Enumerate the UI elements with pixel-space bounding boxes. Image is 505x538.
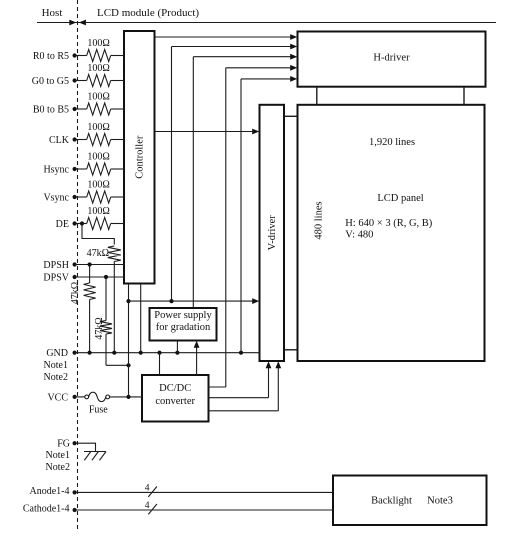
svg-text:Controller: Controller <box>135 135 146 179</box>
resistor R9 47k&#937; (DPSH to GND) <box>84 265 96 353</box>
wire R10 bottom to VCC vertical <box>106 364 129 366</box>
svg-text:Cathode1-4: Cathode1-4 <box>23 504 70 515</box>
svg-text:B0 to B5: B0 to B5 <box>33 105 69 116</box>
wire DC/DC output 2 to V-driver (arrow up) <box>209 361 272 397</box>
svg-text:Hsync: Hsync <box>43 165 69 176</box>
wire VCC distribution to V-driver (arrow) <box>129 298 260 304</box>
svg-text:1,920 lines: 1,920 lines <box>369 137 415 148</box>
svg-text:DC/DC: DC/DC <box>159 383 191 394</box>
resistor R3 100&#937; on B0 to B5 line <box>75 103 124 115</box>
wire DE tap down to resistor R8 <box>82 224 114 245</box>
svg-text:DPSV: DPSV <box>43 273 69 284</box>
node R0 to R5 input (dot on boundary) <box>33 51 77 62</box>
node junction VCC riser <box>169 299 173 303</box>
svg-text:V: 480: V: 480 <box>345 229 373 240</box>
svg-text:47kΩ: 47kΩ <box>70 282 81 304</box>
svg-text:480 lines: 480 lines <box>314 201 325 239</box>
svg-text:4: 4 <box>145 501 150 511</box>
bus width marker 4 (cathode) <box>145 501 157 514</box>
svg-text:47kΩ: 47kΩ <box>87 248 109 259</box>
svg-text:GND: GND <box>46 348 68 359</box>
node G0 to G5 input (dot on boundary) <box>32 76 77 87</box>
wire controller VCC pin down to VCC line <box>128 284 130 397</box>
node VCC junction controller feed <box>126 395 130 399</box>
svg-text:Host: Host <box>42 7 63 19</box>
fuse F1 <box>75 392 110 401</box>
node GND junction DC/DC <box>157 351 161 355</box>
svg-text:Note2: Note2 <box>44 372 68 383</box>
controller U1 <box>124 31 155 284</box>
svg-text:100Ω: 100Ω <box>87 206 109 217</box>
svg-text:100Ω: 100Ω <box>87 122 109 133</box>
wire power supply gradation output to H-driver (arrow) <box>193 54 297 308</box>
node VCC distribution junction <box>126 299 130 303</box>
svg-text:4: 4 <box>145 484 150 494</box>
resistor R8 47k&#937; (DE to GND) <box>108 246 121 353</box>
wire FG to chassis ground <box>75 443 96 451</box>
svg-text:100Ω: 100Ω <box>87 91 109 102</box>
node DPSH junction with R9 <box>88 262 92 266</box>
svg-text:DPSH: DPSH <box>43 260 69 271</box>
wire DC/DC output 1 to H-driver (arrow) <box>209 65 298 387</box>
svg-text:100Ω: 100Ω <box>87 38 109 49</box>
svg-text:Vsync: Vsync <box>43 193 69 204</box>
resistor R1 100&#937; on R0 to R5 line <box>75 50 124 62</box>
svg-text:V-driver: V-driver <box>267 215 278 251</box>
bus width marker 4 (anode) <box>145 484 157 497</box>
node GND input (Note1, Note2) <box>44 348 77 383</box>
node Anode1-4 input <box>30 486 77 497</box>
svg-text:Note1: Note1 <box>44 360 68 371</box>
DC/DC converter block <box>142 375 209 422</box>
resistor R10 47k&#937; (DPSV to VCC) <box>100 277 112 365</box>
svg-text:for gradation: for gradation <box>156 322 211 333</box>
V-driver block <box>260 105 285 361</box>
svg-text:VCC: VCC <box>47 393 68 404</box>
node DPSH input <box>43 260 76 271</box>
wire H-driver to LCD panel connector (left) <box>316 87 318 105</box>
wire power supply GND pin to GND bus <box>176 341 178 353</box>
wire GND bus to V-driver <box>75 352 260 354</box>
svg-text:G0 to G5: G0 to G5 <box>32 76 69 87</box>
wire DC/DC GND pin to GND bus <box>159 353 161 375</box>
resistor R6 100&#937; on Vsync line <box>75 191 124 203</box>
node DPSV junction with R10 <box>104 275 108 279</box>
svg-text:R0 to R5: R0 to R5 <box>33 51 69 62</box>
wire VCC to DC/DC converter <box>110 396 142 398</box>
svg-text:H-driver: H-driver <box>373 53 410 64</box>
wire V-driver to LCD panel connector (top) <box>284 115 298 117</box>
svg-text:Anode1-4: Anode1-4 <box>30 486 70 497</box>
node GND junction power supply <box>175 351 179 355</box>
resistor R5 100&#937; on Hsync line <box>75 163 124 175</box>
wire DC/DC output 3 to V-driver (arrow up) <box>209 361 282 411</box>
wire DPSH to controller <box>75 264 124 266</box>
wire VCC riser to H-driver (arrow) <box>172 44 298 302</box>
svg-text:Note3: Note3 <box>427 495 453 506</box>
node boundary: Host/LCD-module dashed separation line <box>77 0 79 531</box>
node GND junction R8 <box>112 351 116 355</box>
node Hsync input (dot on boundary) <box>43 165 76 176</box>
node B0 to B5 input (dot on boundary) <box>33 105 77 116</box>
svg-text:CLK: CLK <box>49 135 70 146</box>
wire H-driver to LCD panel connector (right) <box>463 87 465 105</box>
svg-text:Backlight: Backlight <box>371 495 412 506</box>
node FG input (Note1, Note2) <box>46 439 77 474</box>
svg-text:Note2: Note2 <box>46 462 70 473</box>
resistor R4 100&#937; on CLK line <box>75 134 124 146</box>
svg-text:converter: converter <box>155 396 195 407</box>
svg-text:Note1: Note1 <box>46 450 70 461</box>
backlight block <box>333 476 487 526</box>
wire controller to H-driver (data, arrow) <box>155 34 298 40</box>
resistor R7 100&#937; on DE line <box>75 218 124 230</box>
svg-text:FG: FG <box>57 439 70 450</box>
node GND junction R9 <box>88 351 92 355</box>
node DE input (dot on boundary) <box>56 219 77 230</box>
wire V-driver to LCD panel connector (bottom) <box>284 349 298 351</box>
ground chassis symbol <box>84 452 106 461</box>
svg-text:DE: DE <box>56 219 69 230</box>
node Cathode1-4 input <box>23 504 77 515</box>
wire top separation line with opposing arrowheads <box>37 20 496 26</box>
svg-text:H: 640 × 3 (R, G, B): H: 640 × 3 (R, G, B) <box>345 218 433 229</box>
svg-text:LCD panel: LCD panel <box>377 193 423 204</box>
wire Anode1-4 to backlight <box>75 491 333 493</box>
node junction R10/VCC feed <box>126 363 130 367</box>
svg-text:100Ω: 100Ω <box>87 179 109 190</box>
wire Cathode1-4 to backlight <box>75 509 333 511</box>
svg-text:47kΩ: 47kΩ <box>94 317 105 339</box>
H-driver block <box>298 32 486 87</box>
node VCC input <box>47 393 76 404</box>
wire DPSV to controller <box>75 276 124 278</box>
wire controller to V-driver (data, arrow) <box>155 129 260 135</box>
power supply for gradation block <box>150 308 217 341</box>
svg-text:LCD module (Product): LCD module (Product) <box>97 7 199 19</box>
wire controller GND pin down to GND bus <box>140 284 142 353</box>
resistor R2 100&#937; on G0 to G5 line <box>75 75 124 87</box>
svg-text:100Ω: 100Ω <box>87 151 109 162</box>
LCD panel block <box>298 105 485 361</box>
node Vsync input (dot on boundary) <box>43 193 76 204</box>
node DPSV input <box>43 273 76 284</box>
wire DC/DC to power supply (arrow up) <box>194 341 200 375</box>
node GND junction controller pin <box>139 351 143 355</box>
svg-text:Power supply: Power supply <box>154 310 212 321</box>
wire GND riser to H-driver (arrow) <box>241 76 297 353</box>
node DE tap junction <box>80 221 84 225</box>
node GND junction H-driver feed <box>239 351 243 355</box>
node CLK input (dot on boundary) <box>49 135 77 146</box>
svg-text:100Ω: 100Ω <box>87 63 109 74</box>
svg-text:Fuse: Fuse <box>89 404 108 415</box>
